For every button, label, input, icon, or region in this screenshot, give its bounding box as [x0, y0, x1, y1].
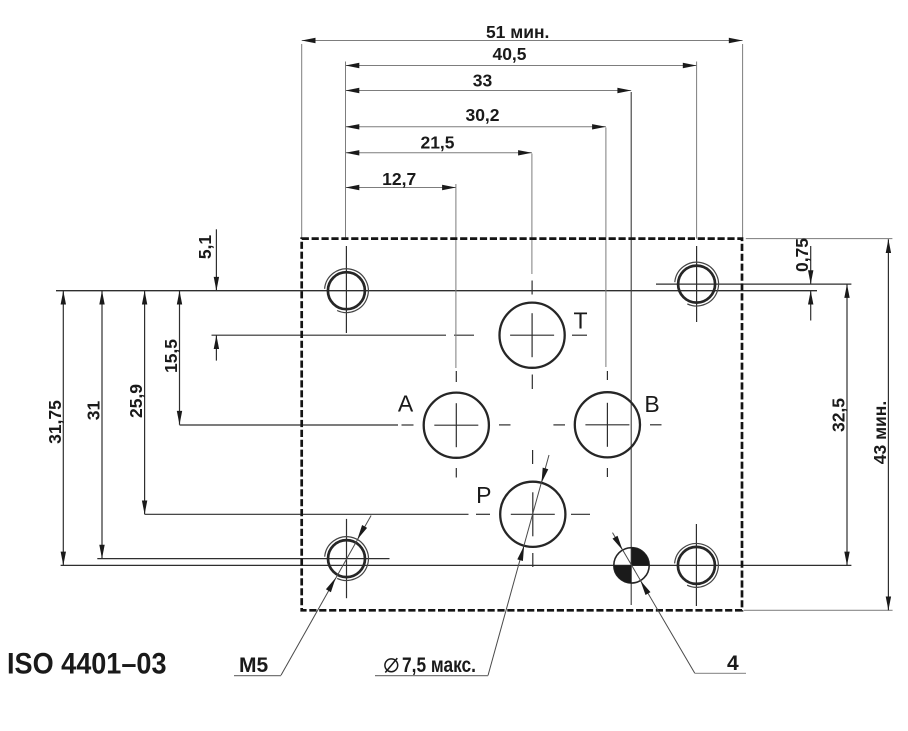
dimension 40,5 [346, 65, 697, 67]
wire bottom-left-hole row line y=558.6 [97, 558, 389, 560]
port A [424, 393, 489, 458]
wire extension 51 right [742, 44, 744, 239]
dimension 32,5 (right) [846, 284, 848, 565]
wire extension 51 left [301, 44, 303, 239]
svg-text:B: B [644, 391, 659, 417]
port B [575, 392, 640, 457]
svg-text:15,5: 15,5 [161, 339, 181, 373]
svg-text:5,1: 5,1 [195, 235, 215, 260]
mounting hole M5 top-right [678, 266, 715, 303]
svg-text:31,75: 31,75 [45, 400, 65, 444]
svg-text:ISO 4401–03: ISO 4401–03 [7, 647, 167, 680]
wire A vertical centerline [455, 371, 457, 382]
dimension 51 мин. (top) [302, 40, 743, 42]
svg-text:25,9: 25,9 [126, 384, 146, 418]
dimension 15,5 (left) [179, 291, 181, 425]
svg-text:31: 31 [84, 401, 104, 421]
svg-text:40,5: 40,5 [492, 44, 526, 64]
svg-text:A: A [398, 390, 414, 416]
mounting hole M5 bottom-right [678, 547, 715, 584]
svg-text:12,7: 12,7 [382, 169, 416, 189]
wire extension T/P x=531.9 [531, 154, 533, 275]
wire T row centerline [212, 334, 447, 336]
label ⌀7,5 макс. [385, 659, 398, 672]
wire bottom row long line y=565.35 [61, 564, 852, 566]
svg-text:43 мин.: 43 мин. [870, 401, 890, 464]
svg-text:4: 4 [727, 652, 739, 675]
wire extension x=345.5 top dims [345, 62, 347, 239]
svg-text:51 мин.: 51 мин. [486, 22, 549, 42]
wire extension A x=455.9 [455, 184, 457, 368]
svg-text:M5: M5 [239, 654, 268, 677]
dimension 21,5 [346, 152, 532, 154]
svg-text:0,75: 0,75 [792, 238, 812, 272]
svg-text:7,5 макс.: 7,5 макс. [402, 654, 476, 677]
leader ⌀7,5 макс. to port P [488, 455, 549, 676]
wire plate top edge extension [746, 238, 893, 240]
svg-text:30,2: 30,2 [465, 105, 499, 125]
port T [499, 303, 564, 368]
wire top-left-hole row centerline y=290.7 [56, 290, 817, 292]
dimension 0,75 (right, outside arrows) [810, 246, 812, 284]
wire BL hole vertical centerline [346, 519, 348, 598]
wire BR hole vertical centerline [695, 524, 697, 606]
dimension 30,2 [346, 126, 606, 128]
svg-text:P: P [476, 482, 491, 508]
wire P row centerline [145, 513, 469, 515]
wire top-right-hole row centerline y=284.1 [656, 283, 851, 285]
port P [500, 482, 565, 547]
mounting hole M5 bottom-left [328, 540, 365, 577]
dimension 5,1 (left, outside arrows) [215, 229, 217, 290]
wire extension TR x=697 [696, 62, 698, 239]
leader M5 to bottom-left mounting hole [281, 516, 371, 676]
dimension 25,9 (left) [144, 291, 146, 515]
wire TL hole vertical centerline [345, 246, 347, 333]
wire A-B row centerline [180, 424, 399, 426]
svg-text:33: 33 [473, 70, 493, 90]
dimension 31 (left) [101, 291, 103, 559]
wire extension 33 / pin hole centerline x=631.2 [630, 92, 632, 605]
dimension 31,75 (left) [62, 291, 64, 566]
mounting hole M5 top-left [328, 272, 365, 309]
leader 4 to locating pin hole [613, 533, 695, 674]
dimension 12,7 [346, 187, 456, 189]
wire B vertical centerline [606, 371, 608, 380]
wire plate bottom edge extension [744, 609, 893, 611]
dimension 33 [346, 90, 632, 92]
wire T-P vertical centerline [531, 281, 533, 295]
plate outline ISO 4401-03 mounting surface [302, 239, 742, 611]
dimension 43 мин. (right) [887, 239, 889, 610]
wire TR hole vertical centerline [696, 246, 698, 322]
svg-text:32,5: 32,5 [829, 398, 849, 432]
locating pin hole 4 (quadrant-filled) [614, 548, 649, 583]
wire extension B x=605.9 [605, 128, 607, 368]
svg-text:21,5: 21,5 [420, 132, 454, 152]
svg-text:T: T [574, 308, 588, 334]
